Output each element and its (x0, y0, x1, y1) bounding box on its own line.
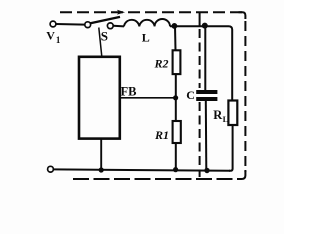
switch control line to regulator (99, 28, 102, 57)
svg-text:V: V (46, 29, 55, 43)
wire node A down to R2 (174, 26, 177, 50)
capacitor C lead bottom (205, 101, 208, 170)
svg-text:L: L (223, 114, 229, 124)
svg-text:S: S (101, 29, 108, 44)
input terminal V1 (50, 21, 56, 27)
RL bottom lead (229, 125, 233, 171)
svg-text:R1: R1 (154, 128, 169, 142)
svg-text:L: L (142, 31, 150, 45)
wire V1 to switch (56, 23, 85, 26)
load resistor RL (228, 101, 237, 126)
output terminal - (48, 166, 54, 172)
wire R2 to FB junction (175, 74, 177, 98)
resistor R1 (173, 121, 181, 143)
svg-text:C: C (186, 88, 195, 102)
dashed current path bottom (73, 178, 238, 180)
bottom rail wire (53, 169, 230, 170)
capacitor C lead top (204, 26, 206, 90)
wire R1 to bottom rail (175, 143, 177, 170)
switch S (85, 17, 120, 29)
svg-text:R2: R2 (154, 57, 169, 71)
inductor L (124, 19, 170, 26)
junction R1/rail (173, 167, 178, 172)
junction FB node (173, 95, 178, 100)
wire switch to inductor (113, 25, 124, 28)
current direction arrow (117, 10, 125, 15)
resistor R2 (173, 50, 181, 74)
dashed current path right edge (239, 12, 246, 19)
junction regulator/rail (99, 167, 104, 172)
pin FB wire (120, 97, 176, 99)
junction node A (L / R2) (172, 23, 178, 29)
regulator bottom lead (100, 139, 102, 171)
wire inductor to RL corner (170, 26, 232, 100)
junction node B (C tap) (202, 23, 208, 29)
svg-text:1: 1 (56, 35, 61, 45)
capacitor C (196, 92, 217, 99)
junction C/rail (204, 168, 209, 173)
svg-text:FB: FB (121, 85, 137, 99)
dashed current path through C (199, 12, 201, 26)
regulator block U1 (79, 57, 120, 139)
dashed current path top (60, 11, 242, 13)
wire FB junction to R1 (175, 98, 177, 121)
